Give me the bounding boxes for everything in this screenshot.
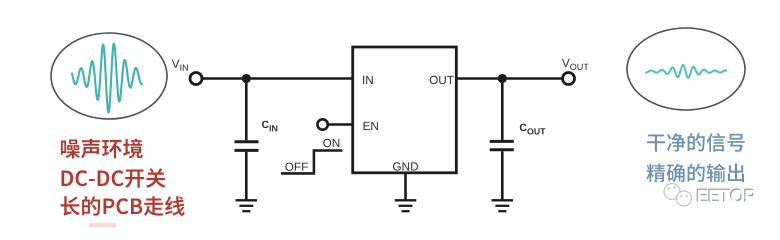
wire VIN to IN pin [202, 77, 353, 80]
noisy signal waveform [72, 44, 142, 113]
wire U1 GND pin to ground [404, 173, 407, 200]
wire CIN to ground [245, 152, 248, 200]
label OFF [285, 163, 308, 171]
switch step waveform OFF to ON [281, 151, 342, 174]
noisy-signal ellipse [51, 33, 167, 119]
label ON [323, 139, 339, 147]
annotation text DC-DC开关 [62, 168, 166, 188]
clean-signal ellipse [627, 28, 745, 110]
capacitor COUT [490, 141, 514, 149]
watermark EETOP text [697, 188, 755, 202]
regulator U1 body [353, 47, 457, 173]
watermark mascot [664, 184, 692, 207]
label VIN [172, 60, 188, 71]
node VIN terminal [190, 73, 202, 85]
label COUT [520, 124, 546, 135]
ground symbol at U1 [395, 200, 417, 211]
pin label GND [393, 162, 418, 170]
ground symbol at COUT [492, 200, 514, 211]
capacitor CIN [235, 142, 259, 151]
clean signal waveform [646, 65, 726, 78]
wire junction down to CIN [245, 79, 248, 141]
label CIN [262, 121, 277, 132]
annotation text 长的PCB走线 [61, 196, 185, 216]
wire OUT pin to VOUT [456, 77, 563, 80]
wire COUT to ground [501, 151, 504, 200]
EN terminal [317, 119, 327, 129]
annotation text 噪声环境 [61, 139, 143, 159]
pin label OUT [430, 76, 454, 84]
junction at COUT [498, 74, 507, 83]
node VOUT terminal [563, 73, 575, 85]
pin label EN [364, 122, 378, 130]
annotation text 干净的信号 [647, 133, 745, 152]
ground symbol at CIN [236, 200, 258, 211]
label VOUT [562, 59, 589, 70]
junction at CIN [242, 74, 251, 83]
wire EN terminal to EN pin [328, 123, 353, 126]
faint remnant of cropped text line [89, 223, 116, 228]
wire junction down to COUT [501, 79, 504, 141]
annotation text 精确的输出 [647, 164, 745, 183]
pin label IN [363, 76, 373, 84]
